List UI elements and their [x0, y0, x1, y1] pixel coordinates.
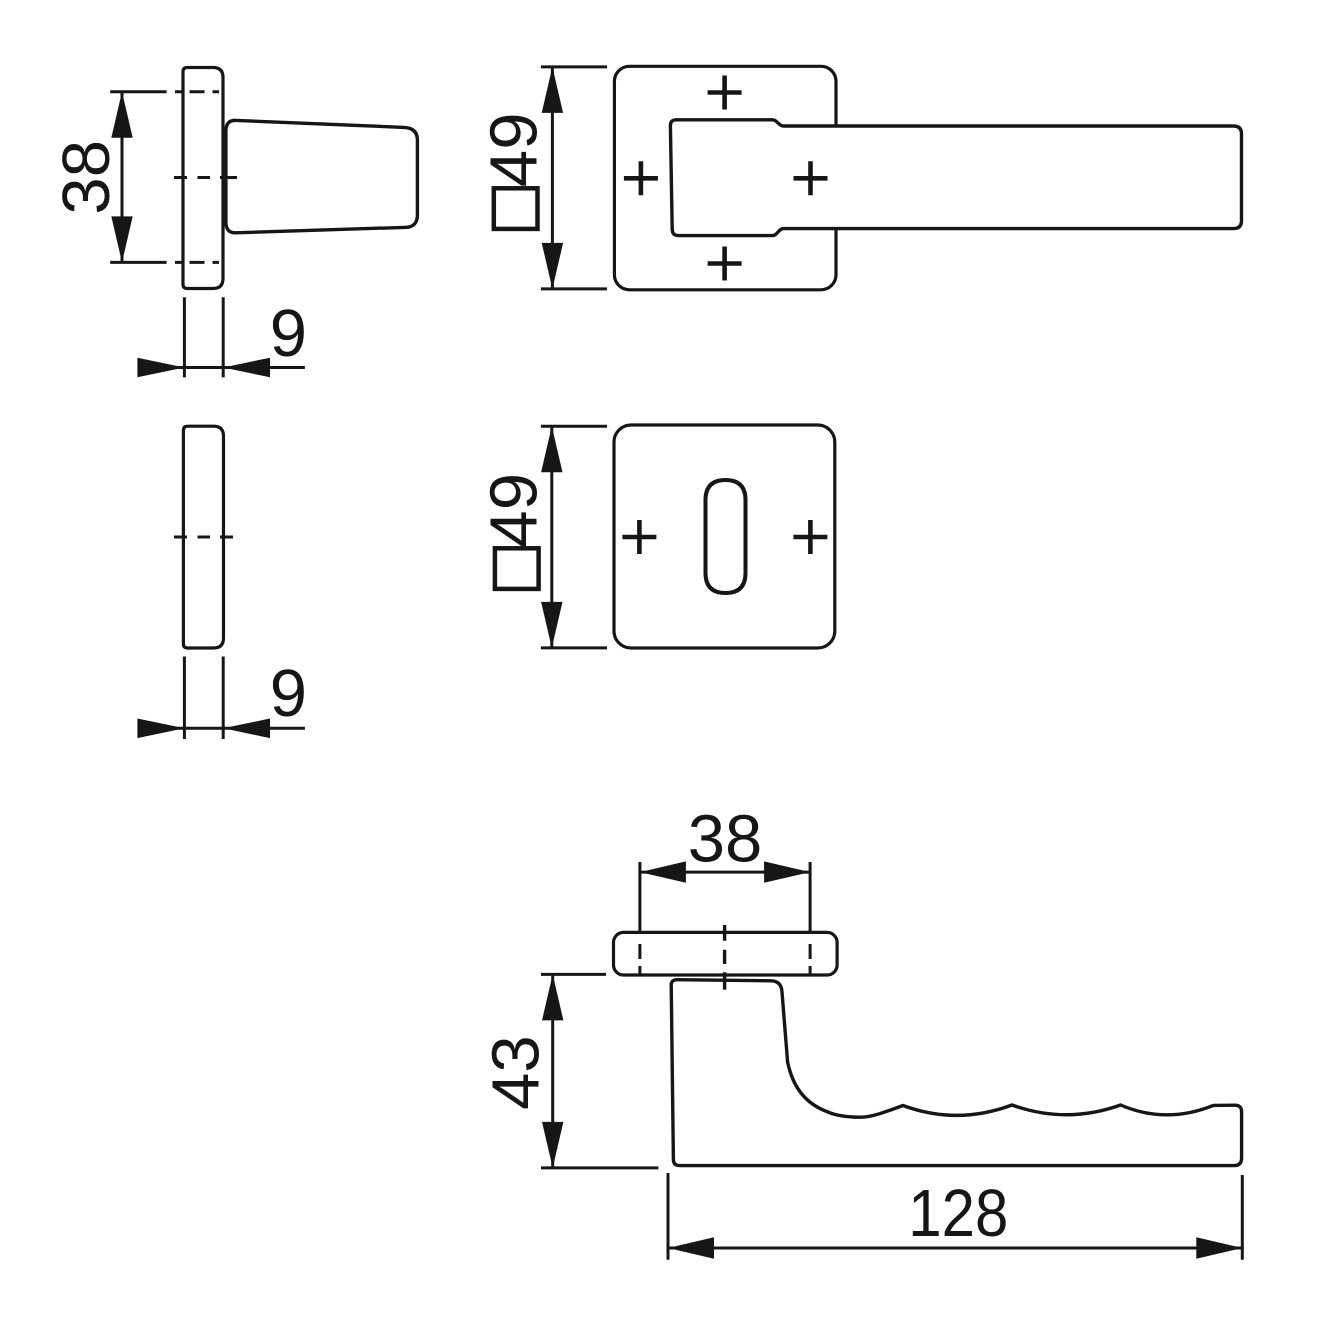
dimension 128 line	[668, 1247, 1242, 1250]
svg-text:128: 128	[908, 1176, 1008, 1251]
dimension sq49 (top) arrow down	[542, 243, 563, 289]
screw cross left	[624, 161, 658, 195]
dimension 38 label	[49, 140, 124, 215]
svg-text:43: 43	[479, 1035, 554, 1110]
centerline bottom of knob view	[110, 261, 219, 264]
lever handle top view outline	[671, 980, 1241, 1166]
dimension 9 (middle) left arrow	[137, 719, 184, 739]
dimension sq49 (middle) arrow down	[541, 602, 562, 648]
key rosette cross right	[793, 520, 827, 554]
dimension sq49 (top) line	[551, 67, 554, 289]
dimension 38 (bottom) right arrow	[764, 861, 810, 882]
square key rosette front view (middle-right)	[614, 425, 835, 648]
dimension sq49 (top) label 49	[476, 113, 551, 188]
lever handle front view	[670, 120, 1241, 236]
dimension 128 extension lines	[668, 1173, 1242, 1260]
svg-text:9: 9	[270, 656, 307, 731]
rosette side view (middle-left)	[183, 426, 223, 648]
centerline middle of knob view	[174, 176, 237, 179]
dimension sq49 (top) ticks	[541, 67, 607, 289]
key rosette cross left	[622, 520, 656, 554]
centerline middle rosette	[174, 536, 233, 539]
dimension 38 (bottom) right extension line	[809, 862, 812, 931]
dimension 9 (top) right arrow	[223, 358, 270, 378]
dimension 128 right arrow	[1196, 1237, 1242, 1258]
dimension sq49 (middle) label 49	[476, 473, 551, 548]
dimension 38 (bottom) line	[640, 871, 810, 874]
dimension sq49 (middle) arrow up	[541, 426, 562, 472]
dimension 38 arrow down	[111, 216, 132, 262]
dimension 38 (bottom) left extension line	[638, 862, 641, 931]
dimension 38 arrow up	[111, 92, 132, 138]
dimension 43 ticks	[541, 974, 658, 1168]
dimension sq49 (middle) line	[550, 426, 553, 648]
square rosette front view (top-right)	[614, 66, 836, 289]
dimension 9 (middle) line	[140, 727, 305, 730]
rosette top view (bottom figure)	[614, 932, 838, 975]
svg-text:49: 49	[476, 113, 551, 188]
rosette side view (top-left)	[183, 68, 223, 289]
dimension 9 (middle) right arrow	[223, 719, 270, 739]
screw cross top	[708, 76, 742, 110]
dimension 9 (top) left arrow	[137, 358, 184, 378]
dimension 128 left arrow	[668, 1237, 714, 1258]
keyhole	[706, 480, 746, 593]
dimension 43 arrow down	[542, 1122, 563, 1168]
dimension 9 (top) extension lines	[184, 297, 223, 377]
svg-text:49: 49	[476, 473, 551, 548]
centerline top of knob view	[110, 90, 219, 93]
dimension 43 arrow up	[542, 974, 563, 1020]
vertical centerline (bottom view)	[723, 925, 726, 990]
dimension 38 (bottom) left arrow	[640, 861, 686, 882]
dimension 43 line	[551, 974, 554, 1168]
dimension 38 line	[121, 92, 124, 263]
svg-text:38: 38	[688, 802, 763, 877]
thumbturn knob side view	[226, 120, 418, 232]
dimension 9 (top) line	[140, 366, 305, 369]
screw cross middle	[794, 161, 828, 195]
dimension 43 label	[479, 1035, 554, 1110]
dimension sq49 (middle) square symbol	[495, 548, 539, 589]
svg-text:38: 38	[49, 140, 124, 215]
svg-text:9: 9	[270, 296, 307, 371]
dimension 9 (middle) extension lines	[184, 657, 223, 740]
dimension sq49 (top) arrow up	[542, 67, 563, 113]
dimension sq49 (top) square symbol	[494, 188, 538, 229]
screw cross bottom	[708, 247, 742, 281]
dimension sq49 (middle) ticks	[541, 426, 607, 648]
